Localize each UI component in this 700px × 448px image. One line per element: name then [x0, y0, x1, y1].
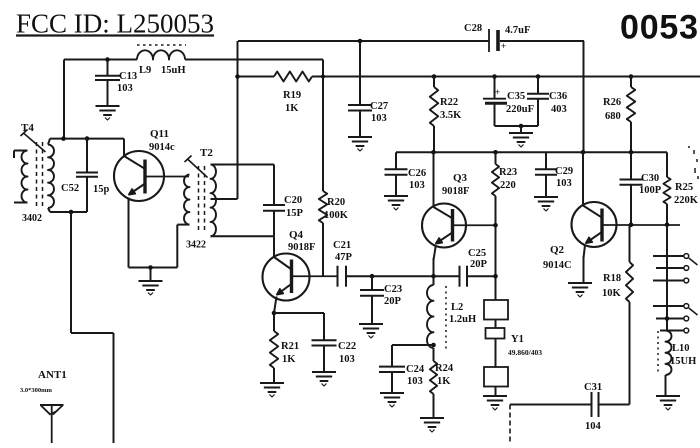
svg-text:3.0*300mm: 3.0*300mm [20, 387, 53, 394]
svg-text:+: + [495, 87, 500, 97]
svg-text:103: 103 [409, 180, 425, 191]
svg-text:C35: C35 [507, 91, 525, 102]
svg-text:1K: 1K [285, 103, 299, 114]
svg-text:R22: R22 [440, 97, 458, 108]
svg-text:C52: C52 [61, 183, 79, 194]
svg-text:403: 403 [551, 104, 567, 115]
svg-text:C20: C20 [284, 195, 302, 206]
svg-text:C27: C27 [370, 101, 388, 112]
svg-text:R26: R26 [603, 97, 621, 108]
svg-text:C30: C30 [641, 173, 659, 184]
svg-text:C24: C24 [406, 364, 425, 375]
svg-text:103: 103 [407, 376, 423, 387]
svg-text:L2: L2 [451, 302, 463, 313]
svg-text:220K: 220K [674, 195, 699, 206]
svg-text:103: 103 [371, 113, 387, 124]
svg-text:103: 103 [339, 354, 355, 365]
svg-text:R21: R21 [281, 341, 299, 352]
svg-text:0053: 0053 [620, 9, 699, 47]
svg-text:9018F: 9018F [288, 242, 315, 253]
svg-text:R20: R20 [327, 197, 345, 208]
svg-text:1K: 1K [282, 354, 296, 365]
svg-text:15uH: 15uH [161, 65, 186, 76]
svg-text:L9: L9 [139, 65, 151, 76]
svg-text:103: 103 [117, 83, 133, 94]
svg-text:ANT1: ANT1 [38, 369, 67, 381]
svg-text:3402: 3402 [22, 213, 42, 224]
svg-text:9018F: 9018F [442, 186, 469, 197]
svg-text:C28: C28 [464, 23, 482, 34]
svg-text:15p: 15p [93, 184, 110, 195]
svg-text:T2: T2 [200, 147, 213, 159]
svg-text:49.860/403: 49.860/403 [508, 348, 542, 357]
svg-text:C36: C36 [549, 91, 567, 102]
svg-text:R25: R25 [675, 182, 693, 193]
svg-text:C23: C23 [384, 284, 402, 295]
svg-text:R18: R18 [603, 273, 621, 284]
svg-text:C26: C26 [408, 168, 426, 179]
svg-text:104: 104 [585, 421, 602, 432]
svg-text:100P: 100P [639, 185, 662, 196]
svg-text:20P: 20P [384, 296, 402, 307]
svg-text:C22: C22 [338, 341, 356, 352]
svg-text:Q2: Q2 [550, 244, 565, 256]
svg-text:1.2uH: 1.2uH [449, 314, 476, 325]
svg-text:C13: C13 [119, 71, 137, 82]
svg-text:C25: C25 [468, 248, 486, 259]
svg-text:C31: C31 [584, 382, 602, 393]
svg-text:15UH: 15UH [670, 356, 696, 367]
svg-text:47P: 47P [335, 252, 353, 263]
svg-text:R19: R19 [283, 90, 301, 101]
svg-text:+: + [501, 41, 506, 51]
svg-text:220: 220 [500, 180, 516, 191]
svg-text:4.7uF: 4.7uF [505, 25, 530, 36]
svg-text:9014c: 9014c [149, 142, 175, 153]
svg-text:Q11: Q11 [150, 128, 169, 140]
svg-text:C29: C29 [555, 166, 573, 177]
svg-text:Q3: Q3 [453, 172, 468, 184]
svg-text:C21: C21 [333, 240, 351, 251]
svg-text:R23: R23 [499, 167, 517, 178]
svg-text:T4: T4 [21, 122, 34, 134]
svg-text:1K: 1K [437, 376, 451, 387]
svg-text:L10: L10 [672, 343, 690, 354]
svg-text:Q4: Q4 [289, 229, 304, 241]
svg-text:Y1: Y1 [511, 334, 524, 345]
svg-text:100K: 100K [324, 210, 349, 221]
svg-text:3422: 3422 [186, 240, 206, 251]
svg-text:9014C: 9014C [543, 260, 572, 271]
svg-text:15P: 15P [286, 208, 304, 219]
svg-text:20P: 20P [470, 259, 488, 270]
svg-text:103: 103 [556, 178, 572, 189]
svg-text:680: 680 [605, 111, 621, 122]
svg-text:R24: R24 [435, 363, 454, 374]
svg-text:10K: 10K [602, 288, 622, 299]
svg-text:3.5K: 3.5K [440, 110, 462, 121]
svg-text:220uF: 220uF [506, 104, 534, 115]
svg-text:FCC ID: L250053: FCC ID: L250053 [16, 9, 214, 39]
